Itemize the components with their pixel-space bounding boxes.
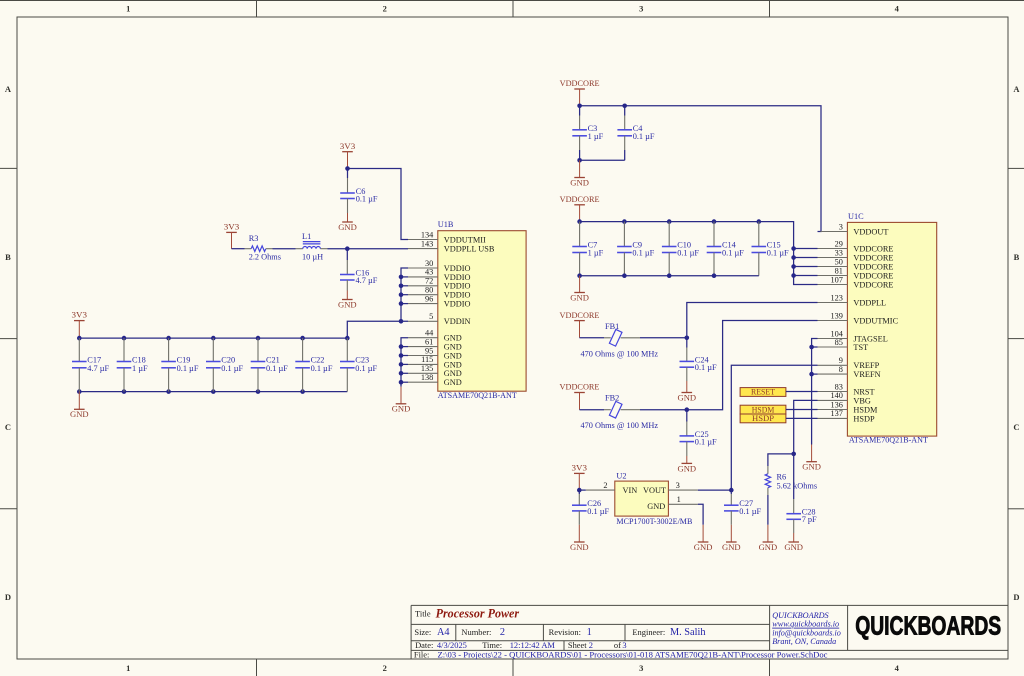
svg-text:VREFN: VREFN [853, 370, 880, 379]
svg-text:43: 43 [425, 268, 433, 277]
svg-text:VDDIO: VDDIO [444, 273, 471, 282]
svg-text:1 µF: 1 µF [588, 132, 604, 141]
svg-text:3V3: 3V3 [224, 221, 240, 231]
wire U2 GND down [698, 504, 703, 525]
power port VDDCORE (top) [560, 78, 600, 106]
capacitor C6 [340, 169, 378, 214]
capacitor C14 [707, 222, 745, 276]
U2 pin 3 VOUT [668, 480, 698, 490]
junctions C3/C4 top [577, 104, 627, 109]
svg-text:96: 96 [425, 294, 433, 303]
U1B pin 5 VDDIN [408, 312, 471, 326]
junctions cap bank bottom bus [77, 389, 305, 394]
U1C pin 33 VDDCORE [818, 248, 894, 262]
title block file row [414, 649, 828, 659]
capacitor C19 [161, 338, 199, 392]
power port VDDCORE (FB1) [560, 310, 600, 338]
svg-text:VDDCORE: VDDCORE [853, 244, 893, 253]
capacitor C25 [680, 410, 718, 456]
U1C pin 137 HSDP [818, 409, 875, 423]
svg-text:VDDCORE: VDDCORE [853, 262, 893, 271]
svg-text:GND: GND [444, 334, 462, 343]
regulator U2 MCP1700T-3002E/MB [615, 472, 693, 526]
wire VDDIN [347, 321, 408, 338]
svg-text:MCP1700T-3002E/MB: MCP1700T-3002E/MB [616, 517, 692, 526]
svg-text:3: 3 [676, 480, 680, 490]
svg-text:9: 9 [839, 356, 843, 365]
U2 pin 2 VIN [579, 481, 615, 490]
wire to VDDPLL pin 123 [687, 303, 818, 338]
svg-text:3V3: 3V3 [72, 310, 88, 320]
ground (C3/C4) [570, 160, 589, 187]
wire RESET to NRST [786, 391, 818, 393]
U1B pin 96 VDDIO [408, 294, 471, 308]
svg-text:VDDCORE: VDDCORE [560, 382, 600, 392]
title block date row [415, 640, 627, 650]
svg-text:Engineer:: Engineer: [632, 627, 665, 637]
U1C pin 29 VDDCORE [818, 239, 894, 253]
svg-text:0.1 µF: 0.1 µF [695, 363, 717, 372]
svg-text:VDDCORE: VDDCORE [560, 78, 600, 88]
svg-text:85: 85 [835, 338, 843, 347]
ground (cap bank) [70, 392, 89, 420]
wire U1B GND bus [401, 338, 408, 387]
wire VOUT rail to C27 [698, 489, 731, 491]
svg-text:2: 2 [603, 481, 607, 490]
svg-text:VDDCORE: VDDCORE [560, 194, 600, 204]
U1B pin 135 GND [408, 364, 462, 378]
svg-text:D: D [1013, 592, 1019, 602]
ground (C26) [570, 525, 589, 552]
wire VDDIO bus [401, 268, 408, 321]
svg-text:A: A [5, 84, 12, 94]
wire VBG down [794, 400, 818, 454]
capacitor C9 [617, 222, 655, 276]
svg-text:GND: GND [392, 404, 411, 414]
svg-text:1: 1 [126, 3, 130, 13]
svg-text:Sheet: Sheet [568, 640, 587, 650]
svg-text:137: 137 [830, 409, 842, 418]
svg-text:GND: GND [678, 463, 697, 473]
ground (R6) [759, 525, 778, 552]
svg-text:GND: GND [570, 177, 589, 187]
svg-text:VDDIO: VDDIO [444, 291, 471, 300]
svg-text:0.1 µF: 0.1 µF [177, 364, 199, 373]
svg-text:7 pF: 7 pF [802, 515, 817, 524]
svg-text:1 µF: 1 µF [588, 249, 604, 258]
svg-text:VDDIO: VDDIO [444, 282, 471, 291]
svg-text:0.1 µF: 0.1 µF [266, 364, 288, 373]
ground (C6) [338, 213, 357, 232]
U1C pin 123 VDDPLL [818, 293, 887, 307]
svg-text:30: 30 [425, 259, 433, 268]
inductor L1 [296, 232, 328, 262]
ground (C25) [678, 456, 697, 473]
capacitor C16 [340, 249, 378, 291]
junction node at 3V3/C6 [345, 166, 350, 171]
svg-text:File:: File: [414, 649, 429, 659]
svg-text:U1C: U1C [848, 212, 864, 221]
svg-text:0.1 µF: 0.1 µF [632, 249, 654, 258]
U1C pin 104 JTAGSEL [818, 329, 888, 343]
wire FB2 to junction [640, 409, 687, 411]
svg-text:0.1 µF: 0.1 µF [355, 364, 377, 373]
wire R6 to ground [767, 495, 769, 525]
wire L1 to pin 143 [328, 248, 409, 250]
svg-text:GND: GND [722, 542, 741, 552]
wire junction to R6 [768, 454, 794, 466]
power port 3V3 (U2 input) [572, 462, 588, 490]
svg-text:0.1 µF: 0.1 µF [221, 364, 243, 373]
junction VBG/R6/C28 [791, 452, 796, 457]
svg-text:GND: GND [444, 351, 462, 360]
U1B pin 143 VDDPLL USB [408, 239, 495, 253]
wire to VDDUTMIC pin 139 [687, 321, 818, 410]
svg-text:GND: GND [444, 360, 462, 369]
power port 3V3 (top, at C6) [340, 141, 356, 169]
svg-text:C: C [1013, 422, 1019, 432]
svg-text:5: 5 [429, 312, 433, 321]
svg-text:QUICKBOARDS: QUICKBOARDS [855, 610, 1001, 640]
svg-text:1: 1 [587, 627, 592, 638]
wire R3 to L1 [273, 248, 296, 250]
junctions C7 row bottom bus [577, 273, 716, 278]
svg-text:HSDP: HSDP [752, 413, 774, 423]
resistor R3 [232, 234, 281, 261]
svg-text:ATSAME70Q21B-ANT: ATSAME70Q21B-ANT [438, 391, 517, 400]
svg-text:33: 33 [835, 248, 843, 257]
svg-text:GND: GND [444, 369, 462, 378]
svg-text:3: 3 [639, 3, 643, 13]
svg-text:29: 29 [835, 239, 843, 248]
power port VDDCORE (second) [560, 194, 600, 222]
svg-text:Title: Title [415, 608, 431, 618]
svg-text:3: 3 [639, 663, 643, 673]
title block company info [772, 611, 841, 646]
svg-text:GND: GND [338, 299, 357, 309]
ground (U2) [694, 525, 713, 552]
svg-text:Z:\03 - Projects\22 - QUICKBOA: Z:\03 - Projects\22 - QUICKBOARDS\01 - P… [438, 649, 828, 659]
resistor R6 [765, 466, 817, 495]
wire GND bottom bus (cap bank) [79, 391, 347, 393]
svg-text:95: 95 [425, 346, 433, 355]
ground (JTAGSEL bus) [802, 445, 821, 472]
U2 pin 1 GND [668, 494, 698, 504]
svg-text:2.2 Ohms: 2.2 Ohms [249, 253, 281, 262]
svg-text:VDDCORE: VDDCORE [853, 253, 893, 262]
ground (C24) [678, 381, 697, 402]
svg-text:Date:: Date: [415, 640, 433, 650]
svg-text:61: 61 [425, 337, 433, 346]
svg-text:GND: GND [678, 392, 697, 402]
U1C pin 8 VREFN [818, 365, 881, 379]
capacitor C27 [724, 490, 762, 525]
junctions U1B GND bus [399, 344, 404, 384]
U1B pin 134 VDDUTMII [408, 230, 486, 244]
ground (C28) [784, 533, 803, 552]
svg-text:VIN: VIN [623, 486, 638, 495]
svg-text:80: 80 [425, 286, 433, 295]
svg-text:0.1 µF: 0.1 µF [677, 249, 699, 258]
svg-text:44: 44 [425, 329, 434, 338]
svg-text:HSDM: HSDM [853, 405, 878, 414]
svg-text:A4: A4 [437, 627, 450, 638]
svg-text:HSDP: HSDP [853, 414, 875, 423]
svg-text:R3: R3 [249, 234, 259, 243]
svg-text:B: B [1014, 252, 1020, 262]
svg-text:83: 83 [835, 382, 843, 391]
U1B pin 61 GND [408, 337, 462, 351]
svg-text:VDDCORE: VDDCORE [853, 271, 893, 280]
svg-text:GND: GND [444, 343, 462, 352]
ground (C16) [338, 291, 357, 310]
svg-text:GND: GND [338, 222, 357, 232]
svg-text:GND: GND [647, 502, 665, 511]
svg-text:0.1 µF: 0.1 µF [587, 507, 609, 516]
svg-text:135: 135 [421, 364, 433, 373]
junctions C7 row top bus [577, 219, 761, 224]
svg-text:12:12:42 AM: 12:12:42 AM [510, 640, 556, 650]
port HSDP [740, 413, 786, 423]
title block frame [411, 605, 1008, 659]
svg-text:Number:: Number: [461, 627, 491, 637]
U1C pin 85 TST [818, 338, 869, 352]
svg-text:GND: GND [784, 542, 803, 552]
capacitor C4 [617, 106, 655, 161]
power port 3V3 (left cap bank) [72, 310, 88, 339]
svg-text:138: 138 [421, 373, 433, 382]
svg-text:VBG: VBG [853, 396, 871, 405]
capacitor C18 [117, 338, 148, 392]
svg-text:GND: GND [694, 542, 713, 552]
capacitor C20 [206, 338, 244, 392]
capacitor C23 [340, 338, 378, 392]
U1C pin 3 VDDOUT [821, 222, 889, 236]
svg-text:L1: L1 [302, 232, 311, 241]
svg-text:10 µH: 10 µH [302, 253, 323, 262]
ferrite bead FB2 [580, 393, 659, 430]
wire stubs to VDDCORE pins [794, 249, 818, 276]
svg-text:0.1 µF: 0.1 µF [356, 195, 378, 204]
svg-text:QUICKBOARDS: QUICKBOARDS [772, 611, 829, 620]
U1B pin 44 GND [408, 329, 462, 343]
wire C7 row bottom bus [580, 275, 759, 277]
svg-text:8: 8 [839, 365, 843, 374]
svg-text:A: A [1013, 84, 1020, 94]
svg-text:2: 2 [589, 640, 593, 650]
wire VREFP to 3.0V rail [731, 365, 817, 490]
svg-text:GND: GND [759, 542, 778, 552]
U1C pin 9 VREFP [818, 356, 880, 370]
svg-text:3V3: 3V3 [572, 462, 588, 472]
svg-text:134: 134 [421, 230, 434, 239]
svg-text:123: 123 [830, 293, 842, 302]
svg-text:GND: GND [570, 292, 589, 302]
svg-text:0.1 µF: 0.1 µF [739, 507, 761, 516]
title block title row [415, 606, 520, 621]
capacitor C21 [251, 338, 289, 392]
svg-text:4.7 µF: 4.7 µF [87, 364, 109, 373]
svg-text:GND: GND [802, 462, 821, 472]
svg-text:B: B [5, 252, 11, 262]
junction 3V3/C26/U2 [577, 488, 582, 493]
svg-text:D: D [5, 592, 11, 602]
svg-text:VDDOUT: VDDOUT [853, 227, 888, 236]
svg-text:VDDUTMII: VDDUTMII [444, 235, 486, 244]
junction C3 bottom [577, 158, 582, 163]
U1B pin 43 VDDIO [408, 268, 471, 282]
capacitor C3 [572, 106, 603, 161]
svg-text:50: 50 [835, 257, 843, 266]
junctions cap bank top bus [77, 336, 350, 341]
svg-text:of: of [614, 640, 621, 650]
QUICKBOARDS logo [855, 610, 1001, 640]
capacitor C15 [752, 222, 790, 276]
capacitor C10 [662, 222, 700, 276]
svg-text:R6: R6 [777, 473, 787, 482]
U1C pin 81 VDDCORE [818, 266, 894, 280]
svg-text:VDDIN: VDDIN [444, 317, 471, 326]
svg-text:C: C [5, 422, 11, 432]
capacitor C28 [786, 454, 817, 533]
U1C pin 139 VDDUTMIC [818, 311, 899, 325]
svg-text:VDDIO: VDDIO [444, 300, 471, 309]
power port VDDCORE (FB2) [560, 382, 600, 410]
port RESET [740, 387, 786, 397]
svg-text:143: 143 [421, 239, 433, 248]
wire HSDM [786, 409, 818, 411]
wire VDDCORE second bus [580, 222, 818, 285]
svg-text:81: 81 [835, 266, 843, 275]
svg-text:TST: TST [853, 343, 868, 352]
svg-text:4/3/2025: 4/3/2025 [437, 640, 467, 650]
svg-text:VDDUTMIC: VDDUTMIC [853, 316, 898, 325]
svg-text:VOUT: VOUT [643, 486, 666, 495]
svg-text:1: 1 [677, 494, 681, 504]
svg-text:U2: U2 [616, 472, 626, 481]
svg-text:140: 140 [830, 391, 842, 400]
ground (C27) [722, 525, 741, 552]
ground (C7 row) [570, 276, 589, 303]
U1B pin 30 VDDIO [408, 259, 471, 273]
svg-text:Brant, ON, Canada: Brant, ON, Canada [772, 637, 836, 646]
capacitor C17 [72, 338, 110, 392]
U1C pin 83 NRST [818, 382, 875, 396]
svg-text:Processor Power: Processor Power [436, 606, 520, 621]
svg-text:Size:: Size: [414, 627, 431, 637]
svg-text:470 Ohms @ 100 MHz: 470 Ohms @ 100 MHz [581, 421, 659, 430]
port HSDM [740, 404, 786, 414]
U1C pin 107 VDDCORE [818, 275, 894, 289]
wire JTAGSEL/TST/VREFN bus [812, 339, 818, 445]
svg-text:Time:: Time: [482, 640, 502, 650]
capacitor C26 [572, 490, 610, 525]
U1B pin 72 VDDIO [408, 277, 471, 291]
svg-text:1: 1 [126, 663, 130, 673]
wire FB1 to junction [640, 337, 687, 339]
svg-text:4.7 µF: 4.7 µF [356, 276, 378, 285]
U1B pin 80 VDDIO [408, 286, 471, 300]
svg-text:5.62 kOhms: 5.62 kOhms [777, 482, 818, 491]
svg-text:VDDIO: VDDIO [444, 264, 471, 273]
ferrite bead FB1 [580, 322, 659, 358]
junctions TST/VREFN bus [809, 345, 814, 377]
op-amp U1C (MCU power block ATSAME70Q21B-ANT) [847, 212, 936, 444]
svg-text:GND: GND [70, 409, 89, 419]
svg-text:FB1: FB1 [605, 322, 619, 331]
wire C3/C4 bottom bus [580, 159, 625, 161]
junction VOUT/C27/VREFP [729, 488, 734, 493]
svg-text:VDDCORE: VDDCORE [853, 280, 893, 289]
svg-text:VDDPLL USB: VDDPLL USB [444, 245, 495, 254]
svg-text:RESET: RESET [751, 387, 776, 397]
svg-text:3: 3 [622, 640, 626, 650]
svg-text:0.1 µF: 0.1 µF [633, 132, 655, 141]
svg-text:4: 4 [895, 663, 900, 673]
svg-text:U1B: U1B [438, 220, 454, 229]
svg-text:139: 139 [830, 311, 842, 320]
svg-text:107: 107 [830, 275, 842, 284]
svg-text:0.1 µF: 0.1 µF [722, 249, 744, 258]
power port 3V3 (at R3) [224, 221, 240, 248]
junctions VDDIO bus [399, 275, 404, 324]
junction node at L1/C16 [345, 246, 350, 251]
svg-text:136: 136 [830, 400, 842, 409]
svg-text:GND: GND [570, 542, 589, 552]
junctions VDDCORE bus [791, 246, 796, 278]
ground (U1B GND bus) [392, 387, 411, 414]
capacitor C7 [572, 222, 603, 276]
junction FB1/C24/VDDPLL [685, 336, 690, 341]
svg-text:0.1 µF: 0.1 µF [695, 438, 717, 447]
svg-text:FB2: FB2 [605, 393, 619, 402]
U1B pin 95 GND [408, 346, 462, 360]
capacitor C24 [680, 338, 718, 381]
U1C pin 136 HSDM [818, 400, 878, 414]
svg-text:115: 115 [421, 355, 433, 364]
op-amp U1B (MCU power block ATSAME70Q21B-ANT) [438, 220, 526, 400]
svg-text:www.quickboards.io: www.quickboards.io [772, 620, 839, 629]
svg-text:3: 3 [839, 222, 843, 231]
svg-text:VDDCORE: VDDCORE [560, 310, 600, 320]
svg-text:1 µF: 1 µF [132, 364, 148, 373]
wire 3V3 top bus (cap bank) [79, 337, 347, 339]
U1B pin 115 GND [408, 355, 462, 369]
U1B pin 138 GND [408, 373, 462, 387]
svg-text:72: 72 [425, 277, 433, 286]
U1C pin 140 VBG [818, 391, 871, 405]
svg-text:0.1 µF: 0.1 µF [767, 249, 789, 258]
wire VDDCORE top bus to U1C pin 3 [580, 106, 821, 232]
svg-text:3V3: 3V3 [340, 141, 356, 151]
svg-text:VREFP: VREFP [853, 361, 879, 370]
svg-text:470 Ohms @ 100 MHz: 470 Ohms @ 100 MHz [581, 349, 659, 358]
svg-text:M. Salih: M. Salih [670, 627, 706, 638]
capacitor C22 [295, 338, 333, 392]
svg-text:GND: GND [444, 378, 462, 387]
svg-text:0.1 µF: 0.1 µF [311, 364, 333, 373]
junction FB2/C25/VDDUTMIC [685, 407, 690, 412]
svg-text:2: 2 [383, 663, 387, 673]
wire 3V3 to pin 134 [348, 169, 409, 240]
U1C pin 50 VDDCORE [818, 257, 894, 271]
svg-text:2: 2 [500, 627, 505, 638]
svg-text:ATSAME70Q21B-ANT: ATSAME70Q21B-ANT [849, 436, 928, 445]
svg-text:Revision:: Revision: [549, 627, 581, 637]
wire HSDP [786, 417, 818, 419]
svg-text:2: 2 [383, 3, 387, 13]
svg-text:4: 4 [895, 3, 900, 13]
